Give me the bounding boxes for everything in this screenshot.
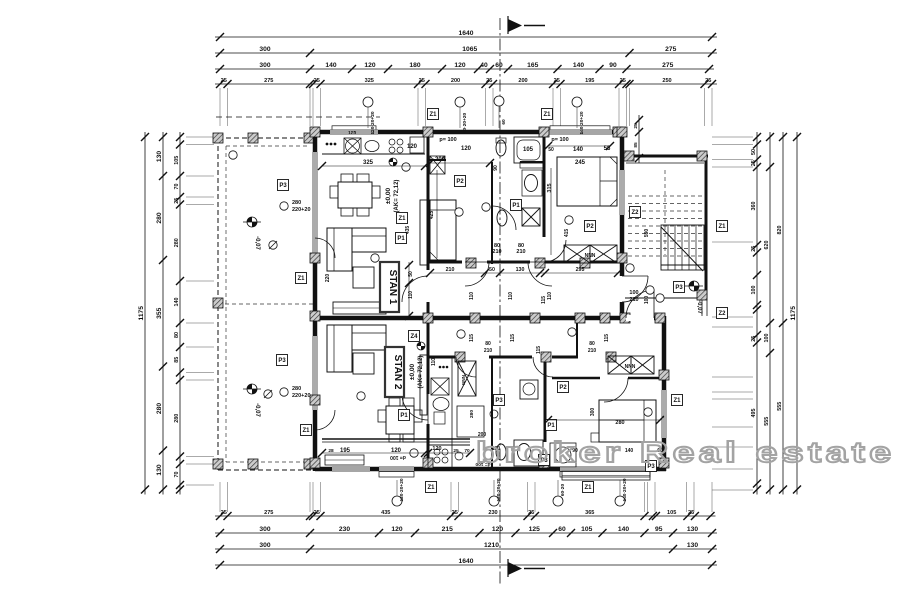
svg-text:100: 100 — [751, 286, 757, 295]
svg-text:P1: P1 — [400, 413, 408, 419]
svg-text:555: 555 — [777, 402, 783, 411]
svg-text:60: 60 — [501, 119, 507, 125]
svg-text:25: 25 — [751, 246, 757, 252]
svg-text:280: 280 — [174, 414, 180, 423]
svg-text:broker Real estate: broker Real estate — [476, 437, 896, 469]
svg-text:Z1: Z1 — [427, 485, 435, 491]
svg-text:280: 280 — [292, 200, 301, 206]
svg-text:(AK= 72,12): (AK= 72,12) — [418, 356, 424, 389]
svg-text:435: 435 — [405, 226, 411, 235]
svg-text:115: 115 — [604, 334, 610, 342]
svg-text:50: 50 — [408, 271, 414, 277]
svg-text:25: 25 — [705, 78, 711, 84]
svg-text:300: 300 — [259, 526, 270, 533]
svg-text:110: 110 — [508, 292, 514, 300]
svg-text:±0,00: ±0,00 — [385, 188, 392, 205]
svg-text:50: 50 — [489, 267, 495, 273]
svg-text:1640: 1640 — [459, 558, 474, 565]
svg-text:110: 110 — [469, 292, 475, 300]
svg-text:50: 50 — [751, 149, 757, 155]
svg-text:100: 100 — [644, 296, 650, 305]
svg-text:220+20: 220+20 — [292, 393, 311, 399]
svg-text:140: 140 — [174, 298, 180, 307]
svg-text:210: 210 — [516, 249, 525, 255]
svg-text:215: 215 — [442, 526, 453, 533]
svg-text:50: 50 — [548, 147, 554, 153]
svg-text:435: 435 — [381, 510, 390, 516]
svg-text:280: 280 — [469, 410, 475, 418]
svg-text:110: 110 — [431, 358, 437, 366]
svg-text:210: 210 — [484, 348, 493, 354]
svg-text:25: 25 — [751, 160, 757, 166]
svg-text:NNN: NNN — [625, 364, 636, 370]
svg-text:110: 110 — [408, 291, 414, 299]
svg-text:280: 280 — [174, 238, 180, 247]
svg-text:115: 115 — [469, 334, 475, 342]
svg-text:130: 130 — [687, 526, 698, 533]
svg-text:315: 315 — [547, 183, 553, 192]
svg-text:555: 555 — [764, 417, 770, 426]
svg-text:90: 90 — [493, 165, 499, 171]
svg-text:80: 80 — [174, 332, 180, 338]
svg-text:250: 250 — [662, 78, 671, 84]
svg-text:195: 195 — [585, 78, 594, 84]
svg-text:25: 25 — [688, 510, 694, 516]
svg-text:Z1: Z1 — [543, 112, 551, 118]
svg-text:60·20+20: 60·20+20 — [462, 112, 468, 133]
svg-text:STAN 1: STAN 1 — [387, 270, 398, 305]
svg-text:70: 70 — [174, 472, 180, 478]
svg-text:P3: P3 — [279, 183, 287, 189]
svg-text:25: 25 — [221, 510, 227, 516]
svg-text:P3: P3 — [278, 358, 286, 364]
svg-text:d= 100: d= 100 — [390, 454, 406, 460]
svg-text:P1: P1 — [397, 236, 405, 242]
svg-text:25: 25 — [633, 123, 639, 129]
svg-text:120·20+20: 120·20+20 — [370, 111, 376, 134]
svg-text:Z2: Z2 — [631, 210, 639, 216]
svg-text:Z1: Z1 — [398, 216, 406, 222]
svg-text:P2: P2 — [456, 179, 464, 185]
svg-text:25: 25 — [314, 78, 320, 84]
svg-text:Z2: Z2 — [718, 311, 726, 317]
svg-text:105: 105 — [523, 147, 534, 153]
svg-text:25: 25 — [419, 78, 425, 84]
svg-text:100: 100 — [764, 334, 770, 343]
svg-text:115: 115 — [510, 334, 516, 342]
svg-text:125: 125 — [348, 130, 356, 136]
svg-text:415: 415 — [564, 229, 570, 238]
svg-text:110: 110 — [547, 292, 553, 300]
svg-text:245: 245 — [575, 160, 586, 166]
svg-text:1065: 1065 — [462, 46, 477, 53]
svg-text:200: 200 — [435, 157, 446, 163]
svg-text:280: 280 — [156, 212, 163, 223]
svg-text:425: 425 — [429, 211, 435, 220]
svg-text:P1: P1 — [547, 423, 555, 429]
svg-text:120: 120 — [454, 62, 465, 69]
svg-text:60·20: 60·20 — [560, 484, 566, 497]
svg-text:85: 85 — [633, 142, 639, 148]
svg-text:P2: P2 — [586, 224, 594, 230]
svg-text:p= 100: p= 100 — [439, 137, 456, 143]
svg-text:70: 70 — [174, 184, 180, 190]
svg-text:220: 220 — [325, 274, 331, 283]
svg-text:125: 125 — [529, 526, 540, 533]
svg-text:590: 590 — [644, 229, 650, 238]
svg-text:180: 180 — [409, 62, 420, 69]
svg-text:105: 105 — [667, 510, 676, 516]
svg-text:325: 325 — [365, 78, 374, 84]
svg-text:120: 120 — [492, 526, 503, 533]
svg-text:300: 300 — [259, 46, 270, 53]
svg-text:140·20+20: 140·20+20 — [579, 111, 585, 134]
svg-text:130: 130 — [156, 151, 163, 162]
svg-text:210: 210 — [588, 348, 597, 354]
svg-text:25: 25 — [486, 78, 492, 84]
svg-text:220+20: 220+20 — [292, 207, 311, 213]
svg-text:120·20+20: 120·20+20 — [496, 478, 502, 501]
svg-text:210: 210 — [446, 267, 455, 273]
svg-text:360: 360 — [751, 202, 757, 211]
svg-text:115: 115 — [536, 346, 542, 354]
svg-text:140: 140 — [573, 147, 584, 153]
svg-text:P2: P2 — [559, 385, 567, 391]
svg-text:25: 25 — [221, 78, 227, 84]
svg-text:NNN: NNN — [585, 253, 596, 259]
svg-text:275: 275 — [662, 62, 673, 69]
svg-text:Z1: Z1 — [673, 398, 681, 404]
svg-text:95: 95 — [655, 526, 663, 533]
svg-text:280: 280 — [615, 420, 624, 426]
svg-text:140·20+20: 140·20+20 — [622, 478, 628, 501]
svg-text:-0,07: -0,07 — [254, 236, 260, 250]
svg-text:200: 200 — [518, 78, 527, 84]
svg-text:80: 80 — [589, 341, 595, 347]
svg-text:280: 280 — [156, 403, 163, 414]
svg-text:275: 275 — [264, 510, 273, 516]
svg-text:210: 210 — [629, 297, 638, 303]
svg-text:25: 25 — [314, 510, 320, 516]
svg-text:275: 275 — [264, 78, 273, 84]
svg-text:P3: P3 — [675, 285, 683, 291]
svg-text:P3: P3 — [495, 398, 503, 404]
svg-text:120: 120 — [364, 62, 375, 69]
svg-text:280: 280 — [292, 386, 301, 392]
svg-text:-0,07: -0,07 — [254, 403, 260, 417]
svg-text:NNN: NNN — [461, 375, 466, 385]
svg-text:300: 300 — [259, 542, 270, 549]
svg-text:275: 275 — [665, 46, 676, 53]
svg-text:300: 300 — [259, 62, 270, 69]
svg-text:STAN 2: STAN 2 — [392, 355, 403, 390]
svg-text:200: 200 — [451, 78, 460, 84]
svg-text:1210: 1210 — [484, 542, 499, 549]
svg-text:90: 90 — [609, 62, 617, 69]
svg-text:25: 25 — [554, 78, 560, 84]
svg-text:120: 120 — [432, 446, 441, 452]
svg-text:130: 130 — [687, 542, 698, 549]
svg-text:165: 165 — [527, 62, 538, 69]
svg-text:230: 230 — [488, 510, 497, 516]
svg-text:130: 130 — [156, 464, 163, 475]
svg-text:160: 160 — [386, 130, 394, 136]
svg-text:Z1: Z1 — [429, 112, 437, 118]
svg-text:105: 105 — [581, 526, 592, 533]
svg-text:120: 120 — [391, 526, 402, 533]
svg-text:p= 100: p= 100 — [551, 137, 568, 143]
svg-text:25: 25 — [174, 198, 180, 204]
svg-text:140: 140 — [618, 526, 629, 533]
svg-text:60: 60 — [495, 62, 503, 69]
svg-text:(AK= 72,12): (AK= 72,12) — [394, 180, 400, 213]
svg-text:25: 25 — [751, 336, 757, 342]
svg-text:100: 100 — [629, 290, 638, 296]
svg-text:620: 620 — [764, 241, 770, 250]
svg-text:140: 140 — [573, 62, 584, 69]
svg-text:355: 355 — [156, 307, 163, 318]
svg-text:210: 210 — [492, 249, 501, 255]
svg-text:325: 325 — [363, 160, 374, 166]
svg-text:1640: 1640 — [459, 30, 474, 37]
svg-text:Z1: Z1 — [297, 276, 305, 282]
svg-text:230: 230 — [339, 526, 350, 533]
svg-text:40: 40 — [480, 62, 488, 69]
svg-text:120·20+20: 120·20+20 — [399, 478, 405, 501]
svg-text:365: 365 — [585, 510, 594, 516]
svg-text:Z1: Z1 — [584, 485, 592, 491]
svg-text:-0,07: -0,07 — [696, 300, 702, 314]
svg-text:105: 105 — [174, 156, 180, 165]
svg-text:P1: P1 — [512, 203, 520, 209]
svg-text:±0,00: ±0,00 — [409, 364, 416, 381]
svg-text:120: 120 — [407, 144, 418, 150]
svg-text:120: 120 — [461, 146, 472, 152]
svg-text:Z1: Z1 — [718, 224, 726, 230]
svg-text:300: 300 — [590, 408, 596, 417]
svg-text:495: 495 — [751, 409, 757, 418]
svg-text:25: 25 — [620, 78, 626, 84]
svg-text:140: 140 — [325, 62, 336, 69]
svg-text:295: 295 — [576, 267, 585, 273]
svg-text:Z4: Z4 — [410, 334, 418, 340]
svg-text:85: 85 — [174, 357, 180, 363]
svg-text:25: 25 — [452, 510, 458, 516]
svg-text:130: 130 — [516, 267, 525, 273]
svg-text:820: 820 — [777, 226, 783, 235]
svg-text:1175: 1175 — [790, 306, 797, 321]
svg-text:Z1: Z1 — [302, 428, 310, 434]
svg-text:1175: 1175 — [138, 306, 145, 321]
svg-text:80: 80 — [485, 341, 491, 347]
svg-text:25: 25 — [528, 510, 534, 516]
svg-text:60: 60 — [558, 526, 566, 533]
